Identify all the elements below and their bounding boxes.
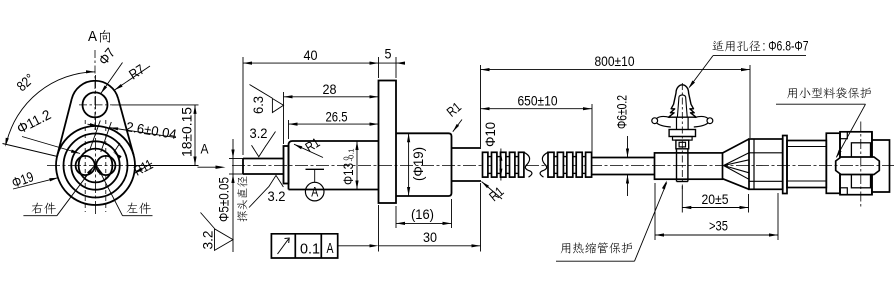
左件 label leader underline bbox=[123, 215, 153, 217]
适用孔径 leader underline bbox=[713, 55, 806, 57]
collar washer bbox=[284, 146, 289, 184]
20±5 dimension line bbox=[682, 207, 748, 209]
φ13 tolerance label bbox=[341, 149, 356, 186]
用小型料袋保护 label bbox=[787, 87, 871, 98]
A-view vertical centerline bbox=[95, 75, 97, 216]
18±0.15 bottom arrowhead bbox=[193, 157, 196, 166]
(φ19) bottom arrowhead bbox=[407, 187, 410, 196]
clip left wing arm bbox=[656, 116, 671, 127]
svg-text:40: 40 bbox=[304, 47, 318, 63]
适用孔径 label bbox=[713, 40, 761, 51]
右件 leader arrowhead bbox=[87, 166, 94, 174]
connector latch tab bottom bbox=[840, 188, 847, 195]
2.6±0.04 left arrowhead bbox=[90, 123, 99, 126]
runout tolerance frame bbox=[271, 234, 337, 258]
connector rear lip bbox=[783, 136, 787, 194]
clip centerline bbox=[681, 83, 683, 189]
svg-text:30: 30 bbox=[423, 229, 437, 245]
mounting flange plate bbox=[379, 81, 397, 204]
φ13 dimension line bbox=[356, 141, 358, 190]
corrugated sheath break squiggle left of section 2 bbox=[540, 152, 548, 177]
connector vertical centerline bbox=[860, 122, 862, 208]
section A sight line bbox=[198, 166, 218, 168]
connector block bbox=[826, 133, 840, 193]
boss circle φ11.2 bbox=[79, 149, 113, 183]
φ5 upper arrowhead bbox=[231, 150, 234, 159]
右件 label leader line bbox=[57, 166, 94, 215]
30 extension line right bbox=[480, 183, 482, 252]
>35 extension line right bbox=[777, 193, 779, 240]
connector latch tab top bbox=[840, 132, 847, 139]
boss circle intermediate bbox=[71, 141, 119, 189]
clip left wing ball bbox=[652, 118, 658, 124]
(16) left arrowhead bbox=[396, 222, 405, 225]
svg-text:3.2: 3.2 bbox=[250, 126, 268, 141]
svg-text:0.1: 0.1 bbox=[300, 242, 320, 258]
corrugated sheath section 1 ribs bbox=[483, 152, 488, 177]
clip strap left edge bbox=[676, 149, 678, 182]
runout symbol arrow bbox=[278, 239, 289, 254]
connector boot lip line bbox=[753, 139, 755, 189]
适用孔径 leader arrowhead bbox=[688, 81, 695, 89]
40 right arrowhead bbox=[370, 62, 379, 65]
stem φ10 bbox=[452, 148, 482, 181]
(φ19) dimension line bbox=[408, 133, 410, 196]
connector inner body bbox=[840, 132, 872, 195]
R11 leader arrowhead bbox=[134, 168, 143, 174]
φ13 bottom arrowhead bbox=[355, 181, 358, 190]
>35 extension line left bbox=[654, 183, 656, 240]
flange plate outline left tangent line bbox=[57, 99, 71, 156]
svg-text:Φ10: Φ10 bbox=[483, 122, 498, 147]
用小型料袋保护 leader line bbox=[837, 104, 866, 157]
(16) extension line left bbox=[395, 206, 397, 228]
section A arrowhead bbox=[216, 166, 226, 169]
28 left arrowhead bbox=[284, 95, 293, 98]
svg-text:: Φ6.8-Φ7: : Φ6.8-Φ7 bbox=[763, 39, 809, 54]
R1 cylinder corner leader bbox=[453, 120, 462, 132]
R11 leader line bbox=[134, 163, 152, 174]
800±10 left arrowhead bbox=[481, 68, 490, 71]
svg-text:-0.1: -0.1 bbox=[347, 149, 356, 162]
20±5 left arrowhead bbox=[682, 206, 691, 209]
datum A circle bbox=[305, 182, 324, 201]
φ19 leader line bbox=[13, 178, 58, 189]
connector horizontal centerline bbox=[756, 165, 894, 167]
clip window inner bbox=[679, 142, 685, 147]
40/5 dimension line bbox=[243, 62, 400, 64]
28 dimension line bbox=[284, 96, 379, 98]
30 right arrowhead bbox=[472, 244, 481, 247]
svg-text:26.5: 26.5 bbox=[326, 108, 348, 124]
φ10 top arrowhead bbox=[499, 152, 502, 161]
R1 fillet leader bbox=[294, 144, 323, 157]
svg-text:800±10: 800±10 bbox=[595, 54, 635, 69]
(16) right arrowhead bbox=[443, 222, 452, 225]
左件 leader arrowhead bbox=[97, 166, 103, 175]
connector boot bbox=[749, 139, 783, 189]
2.6±0.04 dimension line left segment bbox=[88, 124, 99, 126]
corrugated sheath break squiggle right bbox=[524, 152, 532, 177]
connector latch stadium bbox=[836, 157, 880, 175]
wire fan lines bbox=[724, 153, 750, 180]
clip right wing arm bbox=[694, 116, 709, 127]
surface finish 3.2 probe top symbol bbox=[252, 132, 276, 157]
(φ19) top arrowhead bbox=[407, 133, 410, 142]
φ7 leader line bbox=[101, 63, 123, 94]
svg-text:(16): (16) bbox=[411, 206, 434, 222]
right piece phantom centerline bbox=[105, 120, 107, 212]
82° arc lower arrowhead bbox=[5, 138, 9, 147]
clip strap right edge bbox=[687, 149, 689, 182]
svg-text:A: A bbox=[201, 142, 209, 157]
boss circle φ19 bbox=[64, 134, 128, 198]
A-view flange top hole centerline horizontal bbox=[79, 104, 112, 106]
surface finish 3.2 probe bottom symbol bbox=[249, 175, 283, 207]
20±5 extension line right bbox=[748, 194, 750, 213]
26.5 dimension line bbox=[289, 123, 379, 125]
middle view centerline bbox=[232, 165, 756, 167]
svg-text:A: A bbox=[88, 28, 97, 45]
用小型料袋保护 leader underline bbox=[776, 103, 866, 105]
svg-text:A: A bbox=[327, 241, 334, 257]
connector back block bbox=[851, 143, 870, 188]
taper transition top bbox=[723, 139, 750, 153]
18±0.15 extension line from hole center bbox=[112, 104, 199, 106]
heat shrink tube bbox=[655, 153, 723, 179]
(16) extension line right bbox=[451, 199, 453, 228]
650±10 left arrowhead bbox=[481, 107, 490, 110]
2.6±0.04 dimension line right segment bbox=[110, 128, 176, 138]
82° dimension arc bbox=[6, 72, 95, 144]
800 extension line at connector bbox=[749, 65, 751, 138]
flange extension line left bbox=[378, 57, 380, 78]
main body φ13 bbox=[289, 141, 379, 190]
flange plate outline bottom boss circle R11 bbox=[56, 126, 135, 205]
28 extension line bbox=[283, 92, 285, 144]
>35 dimension line bbox=[655, 234, 778, 236]
用小型料袋保护 leader arrowhead bbox=[836, 150, 842, 159]
clip expander legs bbox=[677, 95, 687, 117]
20±5 extension line left bbox=[681, 186, 683, 213]
clip stem verticals bbox=[677, 117, 689, 129]
surface finish 6.3 symbol bbox=[250, 85, 284, 113]
R1 stem fillet arrowhead bbox=[482, 182, 490, 189]
hole φ7 in flange tab bbox=[83, 92, 108, 117]
φ5 lower arrowhead bbox=[231, 174, 234, 183]
>35 left arrowhead bbox=[655, 233, 664, 236]
探头直径 label bbox=[237, 176, 247, 221]
R7 leader arrowhead bbox=[114, 84, 122, 90]
clip cap plate bbox=[669, 130, 695, 137]
18±0.15 top arrowhead bbox=[193, 105, 196, 114]
A-view flange top hole centerline vertical bbox=[94, 50, 96, 130]
svg-text:28: 28 bbox=[323, 81, 337, 97]
2.6±0.04 right arrowhead bbox=[110, 127, 119, 130]
40 left arrowhead bbox=[243, 62, 252, 65]
φ5 extension line top bbox=[229, 158, 243, 160]
800±10 dimension line bbox=[481, 69, 751, 71]
20±5 right arrowhead bbox=[740, 206, 749, 209]
svg-text:Φ5±0.05: Φ5±0.05 bbox=[217, 177, 232, 222]
φ6±0.2 upper arrowhead bbox=[626, 149, 629, 158]
svg-text:18±0.15: 18±0.15 bbox=[180, 107, 195, 157]
>35 right arrowhead bbox=[769, 233, 778, 236]
right sensor piece circle bbox=[96, 156, 115, 175]
40 extension line left bbox=[242, 57, 244, 155]
R1 cylinder corner arrowhead bbox=[453, 124, 459, 132]
clip fir-tree outline bbox=[669, 85, 697, 117]
datum A bar on axis bbox=[306, 168, 325, 170]
5 right arrowhead bbox=[396, 62, 405, 65]
svg-text:A: A bbox=[311, 184, 318, 200]
clip window outer bbox=[676, 140, 689, 149]
tolerance frame leader bbox=[338, 245, 370, 247]
28 right arrowhead bbox=[370, 95, 379, 98]
R1 fillet arrowhead bbox=[294, 144, 302, 149]
R1 stem fillet leader bbox=[482, 182, 503, 200]
svg-text:3.2: 3.2 bbox=[201, 231, 216, 250]
18±0.15 extension of main centerline bbox=[128, 165, 199, 167]
R7 leader line bbox=[114, 66, 150, 90]
φ11.2 leader arrowhead bbox=[71, 150, 80, 154]
svg-text:3.2: 3.2 bbox=[268, 189, 286, 204]
clip right wing ball bbox=[707, 118, 713, 124]
φ10 dimension line bbox=[500, 149, 502, 181]
18±0.15 dimension line bbox=[194, 105, 196, 166]
svg-text:(Φ19): (Φ19) bbox=[411, 147, 426, 181]
φ6±0.2 dimension line upper bbox=[627, 136, 629, 158]
svg-text:650±10: 650±10 bbox=[518, 94, 558, 109]
svg-text:6.3: 6.3 bbox=[251, 96, 266, 114]
30 dimension line bbox=[379, 245, 481, 247]
connector boot wire lines bbox=[749, 153, 783, 182]
26.5 left arrowhead bbox=[289, 123, 298, 126]
右件 label leader underline bbox=[23, 215, 57, 217]
φ6±0.2 lower arrowhead bbox=[626, 175, 629, 184]
左件 label leader line bbox=[97, 166, 122, 215]
svg-text:>35: >35 bbox=[709, 219, 728, 234]
svg-text:Φ13: Φ13 bbox=[341, 163, 356, 185]
φ13 top arrowhead bbox=[355, 141, 358, 150]
heat shrink leader underline bbox=[556, 260, 635, 262]
svg-text:5: 5 bbox=[385, 46, 392, 62]
φ7 leader arrowhead bbox=[101, 86, 108, 94]
82° arc top arrowhead bbox=[86, 70, 95, 73]
connector neck bbox=[787, 141, 826, 188]
flange extension line right bbox=[395, 57, 397, 78]
(16) dimension line bbox=[396, 222, 452, 224]
30 extension line left bbox=[378, 205, 380, 252]
cylinder φ19 housing bbox=[396, 133, 452, 196]
A-view horizontal centerline bbox=[47, 165, 128, 167]
26.5 right arrowhead bbox=[370, 123, 379, 126]
φ5 dimension line bbox=[232, 139, 234, 252]
clip cap mid plate bbox=[673, 137, 693, 141]
probe shaft φ5 bbox=[243, 159, 284, 175]
650±10 dimension line bbox=[481, 108, 593, 110]
right piece edge arrow bbox=[114, 153, 122, 159]
svg-text:20±5: 20±5 bbox=[702, 192, 729, 207]
datum A stem bbox=[314, 169, 316, 182]
φ5 extension line bottom bbox=[229, 173, 243, 175]
φ19 leader arrowhead bbox=[49, 178, 58, 182]
right piece edge arrow line bbox=[114, 143, 120, 153]
30 left outside arrowhead bbox=[370, 244, 379, 247]
用热缩管保护 label bbox=[561, 242, 632, 253]
左件 label text bbox=[127, 202, 151, 213]
flange plate outline right tangent line bbox=[118, 99, 133, 156]
2.6±0.04 slant extension line right bbox=[101, 122, 112, 152]
heat shrink leader line bbox=[635, 183, 667, 262]
connector neck inner lines bbox=[787, 147, 826, 182]
clip strap bottom bbox=[677, 181, 688, 183]
cable φ6 outline bbox=[592, 158, 655, 175]
flange plate outline (teardrop) top arc R7 bbox=[72, 81, 119, 99]
φ11.2 leader line bbox=[22, 137, 80, 154]
connector right section bbox=[872, 132, 890, 195]
26.5 extension line bbox=[288, 120, 290, 139]
800±10 right arrowhead bbox=[741, 68, 750, 71]
φ10 bottom arrowhead bbox=[499, 169, 502, 178]
taper transition bottom bbox=[723, 179, 750, 190]
右件 label text bbox=[32, 202, 56, 213]
surface finish 3.2 on probe end symbol bbox=[201, 213, 234, 251]
82° extension radial line bbox=[3, 144, 58, 157]
svg-text:Φ6±0.2: Φ6±0.2 bbox=[615, 95, 630, 129]
heat shrink leader arrowhead bbox=[662, 181, 667, 190]
corrugated sheath section 2 ribs bbox=[548, 152, 554, 177]
650/800 extension line at sheath end bbox=[480, 65, 482, 147]
left piece phantom centerline bbox=[84, 120, 86, 212]
φ6±0.2 dimension line lower bbox=[627, 175, 629, 197]
适用孔径 leader line bbox=[690, 56, 714, 87]
2.6±0.04 slant extension line left bbox=[90, 121, 101, 151]
650±10 right arrowhead bbox=[583, 107, 592, 110]
650 extension line at cable start bbox=[591, 104, 593, 156]
left sensor piece circle bbox=[76, 156, 95, 175]
